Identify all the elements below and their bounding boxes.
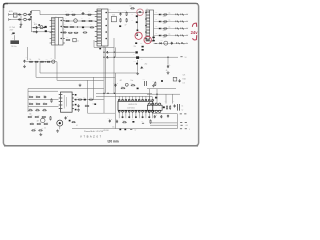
resistor R29 [42,110,47,111]
svg-text:R45: R45 [123,120,126,122]
junction drive d [103,57,104,58]
part above title c [130,129,132,131]
dash bottom bus A1 [180,113,182,115]
diode D17 [137,88,139,90]
ground near U2 [79,84,82,87]
svg-text:C13: C13 [143,79,146,81]
svg-text:-5V: -5V [185,43,187,45]
wire output row 1 [154,14,189,16]
svg-text:R23: R23 [29,102,32,104]
transistor Q1 [74,19,78,23]
svg-text:24v: 24v [191,30,199,35]
border bottom dark edge [4,145,198,147]
wire choke to cap bottom [27,19,32,21]
capacitor group b row 4 [181,35,184,37]
resistor R10 [62,32,67,33]
svg-text:1k: 1k [182,105,184,107]
capacitor C8 [167,65,169,68]
dash bottom bus B1 [180,128,182,130]
wire bridge left drop [31,19,33,32]
wire standby row B [147,93,180,95]
part above title b [124,129,126,131]
svg-text:R27: R27 [29,108,32,110]
svg-text:0.1: 0.1 [76,125,78,127]
capacitor C10 [43,96,46,98]
svg-text:10k: 10k [93,104,96,106]
transistor Q2 [52,60,55,63]
diode column beside U2 c [75,104,77,106]
resistor R10b [68,32,73,33]
svg-text:BD: BD [34,22,36,24]
rectifier diode row 3 [159,28,161,30]
wire row 52 [109,51,135,53]
part below T1 [99,48,101,50]
svg-text:R11: R11 [83,29,85,31]
wire primary top right [108,11,144,13]
AC connector block [10,40,19,44]
resistor R30 [28,116,33,117]
resistor R5 [81,20,86,21]
svg-text:1k: 1k [39,59,41,61]
svg-text:C12: C12 [113,83,116,85]
diode D4 [45,30,47,32]
resistor R42 [121,88,126,89]
svg-text:R19: R19 [46,59,49,61]
wire T3 to Q2 [54,44,56,60]
wire T1 frame left [93,40,95,47]
resistor R1 [65,14,70,15]
wire N input [11,19,23,21]
resistor R37 [31,130,36,131]
junction row B [167,57,168,58]
svg-text:R22: R22 [36,95,39,97]
red brace top hook [192,23,196,27]
wire vertical drive 2b [114,47,116,57]
red annotation circle 2 [135,32,142,39]
paper scan tint [4,4,198,146]
border top-left dark corner [4,4,8,8]
resistor R26 [51,98,52,103]
wire L input [11,14,23,16]
diode D16 [84,99,86,101]
border frame [3,3,198,145]
wire cluster row b [28,106,59,108]
resistor R43 [131,85,136,86]
svg-text:10u: 10u [112,127,115,129]
svg-text:5v: 5v [182,109,184,111]
svg-text:R37: R37 [34,128,37,130]
ground C9 [23,65,26,68]
resistor R31 [35,116,40,117]
svg-text:R43: R43 [131,83,134,85]
resistor R23 [29,103,34,104]
svg-text:D16: D16 [83,97,86,99]
wire bridge top rail [31,10,40,12]
resistor R19 [40,61,45,62]
capacitor group b row 3 [181,28,184,30]
X-capacitor box CX1 [13,13,17,17]
resistor R41 [85,105,90,106]
junction primary row3 [77,26,78,27]
resistor R4 [65,20,70,21]
power part big [136,56,139,59]
svg-text:D15: D15 [134,61,137,63]
junction bulk a [33,27,34,28]
diode column beside U2 b [75,99,77,101]
arrow drive 2 [106,56,109,58]
junction IC feed a [103,93,104,94]
wire choke to cap top [27,14,32,16]
U1 pin stubs top [119,96,152,99]
wire standby row A [147,88,176,90]
U2 pin number ticks [61,94,62,109]
inductor L2 [164,41,168,45]
bus wire 2 [36,76,115,78]
wire NTC to connector [14,35,16,40]
svg-text:SB30: SB30 [163,30,166,32]
diode D28 bridge [38,24,40,26]
resistor R32 [42,116,47,117]
capacitor C18 [179,79,181,82]
wire CY junction [20,16,22,24]
capacitor C4 [119,13,121,16]
diode D19 [69,120,71,122]
resistor R34 [30,123,35,124]
ground below power part [136,72,139,75]
wire primary row2 [64,20,97,22]
resistor R39 [78,99,83,100]
transformer T1 main [95,9,108,46]
capacitor C25 right of Q4 [65,116,67,119]
bus riser 4 [27,89,29,112]
svg-text:R21: R21 [29,95,32,97]
svg-text:LM494 CN: LM494 CN [128,104,138,106]
svg-text:R36: R36 [46,122,49,124]
diode D3 [45,26,47,28]
diode pair right of red circle [152,37,154,39]
capacitor C21 bars [178,104,180,111]
svg-text:2k2: 2k2 [145,64,148,66]
svg-text:D24: D24 [105,49,108,51]
svg-text:+5V: +5V [185,28,188,30]
svg-text:R34: R34 [31,122,34,124]
ground cluster [39,133,42,136]
bus wire 4 [28,88,104,90]
diode D7 [136,15,138,17]
resistor R8 [70,26,75,27]
wire secondary row B [109,56,178,58]
diode D15 [136,63,138,65]
wire standby drop 2 [156,89,158,104]
wire vertical feed a [87,80,89,113]
svg-text:R39: R39 [77,97,80,99]
op-amp IC U2 (LM339) [59,92,74,112]
dash label b [180,56,182,58]
supervisor IC U4 DIP-8 [147,103,162,112]
wire bottom bus B [72,128,177,130]
svg-text:R14: R14 [125,10,128,12]
bus wire 1 [40,72,138,74]
svg-text:5: 5 [189,129,190,131]
resistor R18 [34,61,39,62]
resistor R11 [83,32,88,33]
wire output row 3 [154,28,189,30]
capacitor C1 [81,12,84,14]
resistor R15 [126,18,127,23]
svg-text:R24: R24 [36,102,39,104]
capacitor C12 [114,84,116,87]
junction drive a [114,52,115,53]
svg-text:D20: D20 [155,12,158,14]
junction standby a [156,94,157,95]
parts under U1 pins [122,116,151,118]
junction drive b [114,57,115,58]
resistor R46 [150,119,151,124]
rectifier diode row 1 [159,14,161,16]
diode D6 [119,25,121,27]
wire bottom bus C [150,122,177,124]
resistor R3 [87,14,92,15]
wire vertical drive 1b [105,47,107,93]
svg-text:D22: D22 [155,26,158,28]
svg-text:R25: R25 [43,102,46,104]
resistor R21 [29,96,34,97]
wire primary row3 [64,26,93,28]
trimmer VR2 [125,83,128,86]
wire mid-left row [26,61,57,63]
diode column beside U2 a [75,94,77,96]
resistor R47 [166,105,167,110]
bus wire 5 [28,90,58,92]
junction IC feed b [107,93,108,94]
svg-text:0v: 0v [135,129,137,131]
diode D27 right of U4 [163,106,165,108]
capacitor C24 below U4 [167,115,169,118]
svg-text:LP.018: LP.018 [103,130,108,132]
resistor R35 [37,123,42,124]
wire bulk rail 1 [32,27,48,29]
capacitor group b row 1 [181,14,184,16]
PWM IC U1 TL494 [118,99,153,112]
resistor R9 [90,27,95,28]
wire output row 2 [154,21,189,23]
junction bulk b [33,31,34,32]
wire bulk rail 2 [32,31,53,33]
wire vertical drive 2 [113,38,115,93]
ground Q4 [56,129,59,132]
capacitor group a row 3 [176,28,179,30]
capacitor CX2 bottom [28,18,31,20]
svg-text:R12: R12 [66,37,69,39]
svg-text:1k: 1k [30,59,32,61]
capacitor group a row 1 [176,14,179,16]
varistor VR1 [40,26,43,29]
svg-text:R35: R35 [39,122,42,124]
junction bulk c [43,27,44,28]
resistor R44 [155,82,156,87]
filter choke row 2 [163,21,167,22]
filter choke row 4 [163,35,167,36]
resistor R14 [126,12,127,16]
svg-text:C17: C17 [175,78,178,80]
capacitor C15 [116,120,118,123]
filter choke row 1 [163,14,167,15]
bus riser 3 [56,62,58,81]
capacitor CX2 top [28,13,31,15]
resistor R38 [38,130,43,131]
red annotation circle 3 [144,36,151,43]
wire drop from power part [137,60,139,72]
bus riser 1 [39,62,41,73]
svg-text:1n2: 1n2 [112,15,115,17]
diode D26 [161,80,163,82]
wire vertical feed b [93,77,95,99]
transistor Q4 die [59,122,61,124]
dash bottom bus B2 [185,128,187,130]
capacitor group b row 2 [181,21,184,23]
svg-text:4k7: 4k7 [120,80,123,82]
svg-text:+5V: +5V [185,14,188,16]
choke L1 bottom winding [24,18,27,21]
wire IC feed 2 [96,95,152,97]
svg-text:C15: C15 [115,119,118,121]
capacitor C6 bulk [35,30,37,33]
transformer T2 driver [146,10,154,41]
AC plug pin N [8,19,11,21]
svg-text:R41: R41 [85,104,88,106]
diode D2 [30,16,32,18]
svg-text:J6: J6 [166,70,168,72]
svg-text:R38: R38 [41,128,44,130]
svg-text:D25: D25 [161,40,164,42]
svg-text:C10: C10 [43,95,46,97]
wire cluster row a [28,99,59,101]
svg-text:TH: TH [12,38,14,40]
resistor R20 [46,61,50,62]
part at end row 52 [135,51,137,53]
choke L1 top winding [24,13,27,16]
capacitor C13 pair [145,81,147,86]
svg-text:D23: D23 [155,33,158,35]
svg-text:10n: 10n [131,80,134,82]
snubber part below red circle 2 [135,42,137,44]
transformer T3 standby [50,18,65,46]
arrow drive 1 [106,51,109,53]
ground C11 [77,108,80,111]
U2 internal text smudge [64,95,66,109]
svg-text:R47: R47 [165,101,168,103]
capacitor group a row 5 [177,42,180,44]
dash bottom bus A2 [184,113,186,115]
border top dark edge [4,3,198,5]
wire standby drop 4 [172,94,174,103]
svg-text:tJ0 mm: tJ0 mm [108,139,119,143]
diode D10 in red circle 2 [136,34,138,36]
svg-text:R42: R42 [121,86,124,88]
capacitor C2 snubber [73,38,76,41]
svg-text:2.2: 2.2 [71,32,73,34]
red annotation circle 1 [137,9,144,16]
resistor R36 [44,123,49,124]
bus riser 2 [35,62,37,78]
diode pair right of red circle b [152,40,154,42]
diode D29 above red circle 2 [137,30,139,32]
diode dash row 5 [155,42,157,44]
svg-text:SB30: SB30 [163,16,166,18]
capacitor C3 snubber box [111,16,116,21]
junction mark fuse [20,26,22,27]
U1 pin stubs bottom [119,112,152,118]
svg-text:230 Vac: 230 Vac [11,46,17,48]
svg-text:R28: R28 [36,108,39,110]
svg-text:V 7 B A Z 0 7: V 7 B A Z 0 7 [80,134,102,138]
svg-text:R10: R10 [63,29,66,31]
resistor R10c [74,32,79,33]
svg-text:SB30: SB30 [163,37,166,39]
resistor R25 [43,103,48,104]
part right of U2 col [94,103,96,105]
ground C8 [167,71,170,74]
capacitor C9 [23,60,25,63]
capacitor C22 below U4 [154,115,156,118]
capacitor C23 below U4 [160,115,162,118]
transistor Q3 [41,118,45,122]
resistor R6 [88,20,93,21]
capacitor C14 [109,119,111,122]
resistor R33 [50,116,51,121]
arrow SCR [141,67,144,69]
svg-text:R29: R29 [44,108,47,110]
resistor R22 [36,96,41,97]
wire standby drop 3 [165,94,167,103]
resistor R24 [36,103,41,104]
wire T1 frame bottom [94,46,114,48]
svg-text:47: 47 [125,25,127,27]
svg-text:R31: R31 [38,115,41,117]
capacitor C11 [77,104,79,107]
resistor R17 [29,61,34,62]
wire C8 drop [167,57,169,64]
capacitor C20 [174,104,176,107]
part above title a [119,129,121,131]
diode column beside U2 d [75,109,77,111]
svg-text:C14: C14 [108,118,111,120]
svg-text:R30: R30 [31,115,34,117]
capacitor dash C16 [142,122,144,124]
dash bus C1 [180,122,182,124]
diode D11 in red circle 3 [147,39,149,41]
dash bus C2 [185,122,187,124]
resistor R2 [71,14,76,15]
wire snubber drop [137,12,139,30]
rectifier diode row 5 [160,42,162,44]
capacitor C7 [171,42,173,45]
resistor R50 [72,122,76,123]
capacitor group a row 2 [176,21,179,23]
junction drive c [103,52,104,53]
svg-text:10: 10 [185,57,187,59]
ground AC filter [20,23,23,26]
svg-text:BD1: BD1 [34,24,37,26]
diode pair D14 [142,49,144,51]
svg-text:R44: R44 [153,81,156,83]
wire left riser [27,47,29,60]
dash bus D1 [181,124,183,126]
bus wire 3 [57,79,104,81]
wire output row 5 [154,42,189,44]
wire bridge step down [39,11,41,15]
wire U2 out row [74,99,104,101]
